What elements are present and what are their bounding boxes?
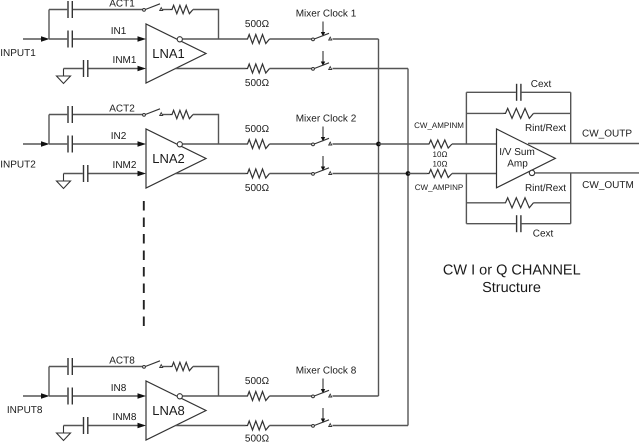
wire INPUT1 junction to ACT1 branch <box>48 10 50 40</box>
switch mixer top of LNA1 <box>312 33 332 41</box>
svg-text:Rint/Rext: Rint/Rext <box>525 123 566 134</box>
resistor 500 ohm bottom of LNA1 <box>246 64 270 73</box>
wire mixer switch bottom to bus B (channel 2) <box>333 173 409 175</box>
resistor 10 ohm bottom <box>427 170 452 178</box>
wire CW_OUTP output <box>528 143 639 145</box>
wire 500 ohm to mixer switch bottom of LNA1 <box>270 68 313 70</box>
resistor ACT8 feedback <box>170 362 193 370</box>
node continuation channels 3-7 dashed line <box>143 201 145 327</box>
svg-text:500Ω: 500Ω <box>245 124 270 135</box>
wire mixer clock control top of LNA2 <box>321 127 325 142</box>
capacitor IN8 coupling <box>68 388 72 405</box>
wire IN8 capacitor to LNA8 <box>73 395 138 397</box>
ground INM1 bias <box>57 69 71 84</box>
svg-text:Mixer Clock 1: Mixer Clock 1 <box>296 9 357 20</box>
wire LNA8 bottom output <box>175 425 245 427</box>
resistor 10 ohm top <box>427 140 452 148</box>
svg-text:10Ω: 10Ω <box>433 150 448 159</box>
wire ACT2 switch to feedback resistor <box>163 114 171 116</box>
switch ACT8 enable <box>143 361 163 369</box>
svg-text:LNA1: LNA1 <box>152 46 185 61</box>
capacitor ACT8 coupling <box>68 358 72 375</box>
switch ACT1 enable <box>143 4 163 12</box>
op-amp LNA1 <box>146 24 206 83</box>
wire ground to INM8 capacitor <box>64 425 83 427</box>
wire Rint/Rext top right lead <box>534 112 571 114</box>
wire junction to IN2 capacitor <box>49 143 67 145</box>
svg-text:500Ω: 500Ω <box>245 78 270 89</box>
switch mixer bottom of LNA1 <box>312 63 332 71</box>
wire INM2 capacitor to LNA2 <box>89 173 139 175</box>
svg-text:ACT1: ACT1 <box>109 0 135 10</box>
wire LNA2 bottom output <box>175 173 245 175</box>
capacitor Cext bottom <box>517 215 521 232</box>
wire LNA2 top output <box>183 143 246 145</box>
node U1 inverted output bubble <box>529 170 534 175</box>
wire 10 ohm bottom to amp <box>452 173 497 175</box>
node IN1 input arrow <box>138 36 147 42</box>
wire ACT2 feedback to LNA2 output <box>193 115 219 145</box>
node LNA8 inverted output bubble <box>177 394 182 399</box>
resistor 500 ohm bottom of LNA2 <box>246 169 270 178</box>
node IN8 input arrow <box>138 393 147 399</box>
wire CW_OUTM output <box>535 172 639 174</box>
wire LNA1 bottom output <box>175 68 245 70</box>
wire CW_AMPINM to 10 ohm <box>379 143 428 145</box>
wire CW_AMPINP to 10 ohm <box>408 173 427 175</box>
wire top feedback left vertical <box>465 92 467 144</box>
switch mixer top of LNA2 <box>312 138 332 146</box>
wire ACT1 switch to feedback resistor <box>163 9 171 11</box>
wire mixer switch top to bus A (channel 1) <box>333 38 379 40</box>
resistor Rint/Rext bottom <box>504 198 534 208</box>
svg-text:Rint/Rext: Rint/Rext <box>525 183 566 194</box>
wire junction to IN1 capacitor <box>49 38 67 40</box>
wire top feedback right vertical <box>570 92 572 143</box>
wire 500 ohm to mixer switch bottom of LNA8 <box>270 425 313 427</box>
svg-text:IN8: IN8 <box>111 383 127 394</box>
svg-text:Cext: Cext <box>531 79 552 90</box>
svg-text:INPUT2: INPUT2 <box>0 160 36 171</box>
wire mixer switch top to bus A (channel 2) <box>333 143 379 145</box>
wire INPUT2 lead <box>23 143 42 145</box>
wire mixer switch bottom to bus B (channel 8) <box>333 425 409 427</box>
wire INPUT2 junction to ACT2 branch <box>48 115 50 145</box>
svg-text:500Ω: 500Ω <box>245 19 270 30</box>
svg-text:ACT8: ACT8 <box>109 356 135 367</box>
svg-text:CW_OUTM: CW_OUTM <box>582 180 634 191</box>
node INPUT1 junction arrow <box>41 36 50 42</box>
node bus B junction dot <box>406 171 411 176</box>
wire INM8 capacitor to LNA8 <box>89 425 139 427</box>
wire Cext top left lead <box>466 91 516 93</box>
svg-text:CW_OUTP: CW_OUTP <box>582 129 632 140</box>
switch mixer top of LNA8 <box>312 390 332 398</box>
svg-text:500Ω: 500Ω <box>245 183 270 194</box>
capacitor Cext top <box>517 84 521 101</box>
wire LNA8 top output <box>183 395 246 397</box>
node LNA1 inverted output bubble <box>177 37 182 42</box>
wire bottom feedback right vertical <box>570 173 572 224</box>
svg-text:CW_AMPINM: CW_AMPINM <box>414 121 464 130</box>
capacitor ACT2 coupling <box>68 106 72 123</box>
wire 500 ohm to mixer switch top of LNA1 <box>270 38 313 40</box>
wire mixer switch bottom to bus B (channel 1) <box>333 68 409 70</box>
wire Rint/Rext bottom right lead <box>534 202 571 204</box>
resistor 500 ohm top of LNA8 <box>246 392 270 401</box>
resistor ACT2 feedback <box>170 110 193 118</box>
node LNA2 inverted output bubble <box>177 142 182 147</box>
wire INPUT1 lead <box>23 38 42 40</box>
svg-text:INM1: INM1 <box>113 55 137 66</box>
wire 500 ohm to mixer switch bottom of LNA2 <box>270 173 313 175</box>
op-amp U1 I/V Sum Amp <box>497 129 556 188</box>
node INM1 input arrow <box>138 66 147 72</box>
node INM2 input arrow <box>138 171 147 177</box>
wire mixer clock control bottom of LNA2 <box>321 156 325 171</box>
wire Rint/Rext top left lead <box>466 112 503 114</box>
wire INM1 capacitor to LNA1 <box>89 68 139 70</box>
switch ACT2 enable <box>143 109 163 117</box>
node IN2 input arrow <box>138 141 147 147</box>
resistor ACT1 feedback <box>170 5 193 13</box>
svg-text:CW I or Q CHANNEL: CW I or Q CHANNEL <box>443 262 581 278</box>
svg-text:LNA2: LNA2 <box>152 151 185 166</box>
wire Cext bottom left lead <box>466 223 516 225</box>
svg-text:LNA8: LNA8 <box>152 403 185 418</box>
resistor 500 ohm bottom of LNA8 <box>246 421 270 430</box>
capacitor IN2 coupling <box>68 136 72 153</box>
wire IN2 capacitor to LNA2 <box>73 143 138 145</box>
op-amp LNA8 <box>146 381 206 440</box>
svg-text:ACT2: ACT2 <box>109 104 135 115</box>
node bus A junction dot <box>376 142 381 147</box>
wire ACT1 capacitor to switch <box>73 9 143 11</box>
svg-text:Amp: Amp <box>507 159 528 170</box>
wire ground to INM2 capacitor <box>64 173 83 175</box>
wire mixer clock control bottom of LNA1 <box>321 51 325 66</box>
capacitor IN1 coupling <box>68 31 72 48</box>
wire ACT2 capacitor to switch <box>73 114 143 116</box>
wire mixer clock control bottom of LNA8 <box>321 408 325 423</box>
svg-text:IN1: IN1 <box>111 26 127 37</box>
wire ACT8 branch to coupling capacitor <box>49 366 67 368</box>
capacitor INM2 coupling <box>84 165 88 182</box>
node INPUT8 junction arrow <box>41 393 50 399</box>
switch mixer bottom of LNA8 <box>312 420 332 428</box>
capacitor INM1 coupling <box>84 60 88 77</box>
resistor 500 ohm top of LNA2 <box>246 140 270 149</box>
wire bottom feedback left vertical <box>465 174 467 224</box>
svg-text:INPUT1: INPUT1 <box>0 48 36 59</box>
svg-text:INM8: INM8 <box>113 412 137 423</box>
wire ACT1 feedback to LNA1 output <box>193 10 219 40</box>
wire 500 ohm to mixer switch top of LNA2 <box>270 143 313 145</box>
wire 500 ohm to mixer switch top of LNA8 <box>270 395 313 397</box>
wire Cext top right lead <box>522 91 571 93</box>
wire ACT8 switch to feedback resistor <box>163 366 171 368</box>
wire LNA1 top output <box>183 38 246 40</box>
svg-text:Structure: Structure <box>482 280 541 296</box>
wire junction to IN8 capacitor <box>49 395 67 397</box>
ground INM2 bias <box>57 174 71 189</box>
svg-text:Mixer Clock 2: Mixer Clock 2 <box>296 114 357 125</box>
wire mixer clock control top of LNA8 <box>321 379 325 394</box>
wire ACT1 branch to coupling capacitor <box>49 9 67 11</box>
wire mixer switch top to bus A (channel 8) <box>333 395 379 397</box>
svg-text:INM2: INM2 <box>113 160 137 171</box>
wire INPUT8 junction to ACT8 branch <box>48 367 50 397</box>
resistor 500 ohm top of LNA1 <box>246 35 270 44</box>
wire ACT2 branch to coupling capacitor <box>49 114 67 116</box>
capacitor INM8 coupling <box>84 417 88 434</box>
resistor Rint/Rext top <box>504 108 534 118</box>
wire bus A summing node CW_AMPINM <box>378 39 380 396</box>
svg-text:10Ω: 10Ω <box>433 160 448 169</box>
node INM8 input arrow <box>138 423 147 429</box>
wire IN1 capacitor to LNA1 <box>73 38 138 40</box>
wire Rint/Rext bottom left lead <box>466 202 503 204</box>
wire ACT8 feedback to LNA8 output <box>193 367 219 397</box>
wire ground to INM1 capacitor <box>64 68 83 70</box>
svg-text:500Ω: 500Ω <box>245 434 270 444</box>
svg-text:Cext: Cext <box>533 228 554 239</box>
wire ACT8 capacitor to switch <box>73 366 143 368</box>
svg-text:Mixer Clock 8: Mixer Clock 8 <box>296 366 357 377</box>
svg-text:I/V Sum: I/V Sum <box>499 147 535 158</box>
svg-text:IN2: IN2 <box>111 131 127 142</box>
node INPUT2 junction arrow <box>41 141 50 147</box>
switch mixer bottom of LNA2 <box>312 168 332 176</box>
wire 10 ohm top to amp <box>452 143 497 145</box>
wire INPUT8 lead <box>23 395 42 397</box>
wire mixer clock control top of LNA1 <box>321 22 325 37</box>
op-amp LNA2 <box>146 129 206 188</box>
svg-text:CW_AMPINP: CW_AMPINP <box>415 183 463 192</box>
capacitor ACT1 coupling <box>68 1 72 18</box>
wire Cext bottom right lead <box>522 223 571 225</box>
svg-text:INPUT8: INPUT8 <box>7 405 43 416</box>
ground INM8 bias <box>57 426 71 441</box>
wire bus B summing node CW_AMPINP <box>407 69 409 426</box>
svg-text:500Ω: 500Ω <box>245 376 270 387</box>
